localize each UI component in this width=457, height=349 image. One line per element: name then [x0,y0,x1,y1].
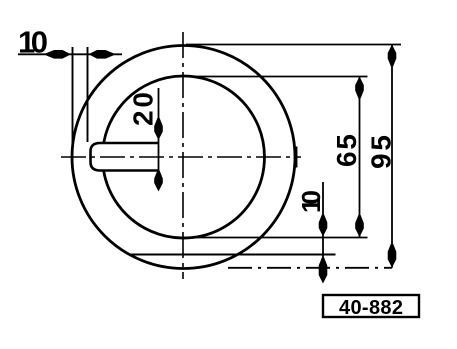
dimension line bottom 10 (vertical) [322,182,324,259]
dimension line 65 (vertical) [359,77,361,238]
dimension line 95 (vertical) [391,45,393,268]
arrow down (20 upper) [154,118,163,140]
dimension line 20 (vertical) [158,88,160,172]
extension line B (tab left edge) for top 10 [87,47,89,142]
outer circle (95 mm) [72,46,295,269]
chord line at bottom of outer circle, extended right as extension line [129,253,336,255]
extension line from inner circle top (for 65) [189,76,368,78]
arrow up (95 top) [388,45,397,67]
horizontal centerline (dash-dot) [61,156,301,158]
arrow down (20 lower overshoot) [154,171,163,192]
figure number box 40-882 [323,295,419,319]
tab (lug) at left, stadium outline [91,143,159,171]
arrow up (65 top) [355,77,364,99]
dimension line for top 10 [18,53,122,55]
arrow down (95 bottom) [388,244,397,268]
svg-text:20: 20 [128,92,159,126]
extension line from inner circle bottom (for 65 and bottom 10) [176,237,368,239]
arrow down (65 bottom) [355,215,364,237]
extension line from outer circle bottom (dash-dot, for 95) [228,267,392,269]
svg-text:10: 10 [296,190,326,213]
arrow down (bottom 10 lower overshoot) [319,258,328,284]
extension line from outer circle top (for 95) [186,44,401,46]
svg-text:10: 10 [18,25,48,60]
svg-text:40-882: 40-882 [339,297,403,319]
extension line A (outer circle left edge) for top 10 [72,47,74,167]
vertical centerline (dash-dot) [182,32,184,279]
arrow down (bottom 10 upper) [319,215,328,237]
arrow left (top 10 right side) [89,50,114,59]
centerline tick at outer-circle right quadrant [296,147,298,168]
svg-text:65: 65 [331,134,362,167]
inner circle (65 mm), interrupted at left by tab [104,76,265,238]
arrow right (top 10 left side) [46,50,71,59]
